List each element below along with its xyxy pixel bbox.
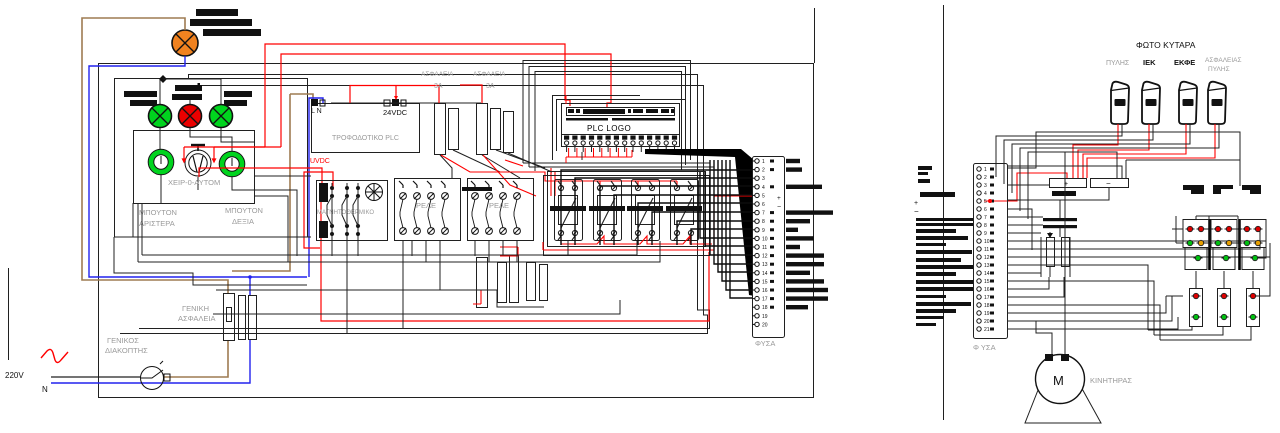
svg-text:6: 6: [762, 202, 765, 208]
svg-text:2: 2: [984, 175, 987, 181]
indicator lamp red centre: [179, 105, 202, 128]
svg-text:20: 20: [984, 319, 990, 325]
thick bar under plus block: [1052, 191, 1076, 196]
wires PLC terminals down: [567, 145, 675, 152]
svg-text:ΓΕΝΙΚΟΣ: ΓΕΝΙΚΟΣ: [107, 336, 139, 345]
wire from minus block down: [1007, 188, 1109, 200]
wire lamp header: [160, 79, 221, 104]
indicator lamp orange: [172, 30, 198, 56]
breaker block Q2 thick band: [589, 206, 625, 211]
svg-text:10: 10: [762, 236, 768, 242]
svg-text:5: 5: [984, 199, 987, 205]
red pin at row5: [988, 199, 992, 203]
relay box K1: [395, 179, 461, 241]
enclosure inner box B1: [139, 75, 710, 329]
node junction diamond: [159, 75, 167, 83]
wire blue neutral: [51, 56, 323, 383]
svg-text:18: 18: [984, 303, 990, 309]
wire loops around PLC: [523, 61, 691, 172]
PLC LOGO module box: [562, 104, 680, 147]
terminal strip FYSA right: [974, 164, 1008, 339]
fuse F2a: [477, 104, 488, 155]
svg-text:+: +: [777, 195, 781, 202]
breaker block Q1: [555, 180, 583, 241]
breaker block Q3 thick band: [627, 206, 663, 211]
svg-text:2: 2: [762, 168, 765, 174]
motor terminals: [1045, 354, 1069, 361]
svg-text:L N: L N: [311, 108, 322, 115]
page border fragment left: [8, 268, 10, 360]
fuse F2c: [504, 112, 514, 153]
svg-text:ΡΕΛΕ: ΡΕΛΕ: [489, 201, 509, 210]
redacted bars above LED relays: [1183, 185, 1261, 194]
svg-text:15: 15: [984, 279, 990, 285]
svg-text:8: 8: [984, 223, 987, 229]
wire red to strip plus row: [714, 196, 752, 244]
svg-text:ΕΚΦΕ: ΕΚΦΕ: [1174, 58, 1195, 67]
wire red fan fuse to breakers: [441, 155, 677, 196]
wire mesh right diagram: [1007, 152, 1270, 354]
svg-text:ΓΕΝΙΚΗ: ΓΕΝΙΚΗ: [182, 304, 209, 313]
enclosure inner box B2: [120, 86, 708, 334]
svg-text:9: 9: [984, 231, 987, 237]
LED relay column C: [1240, 220, 1266, 327]
svg-text:3Α: 3Α: [434, 83, 443, 90]
svg-text:−: −: [914, 207, 919, 216]
svg-text:3: 3: [984, 183, 987, 189]
svg-text:Φ ΥΣΑ: Φ ΥΣΑ: [973, 343, 996, 352]
svg-text:ΙΕΚ: ΙΕΚ: [1143, 58, 1156, 67]
svg-text:XEIP-0-AYTOM: XEIP-0-AYTOM: [168, 178, 220, 187]
fuse F2b: [491, 109, 501, 150]
svg-text:ΔΙΑΚΟΠΤΗΣ: ΔΙΑΚΟΠΤΗΣ: [105, 346, 148, 355]
svg-text:24VDC: 24VDC: [383, 108, 408, 117]
svg-text:19: 19: [984, 311, 990, 317]
svg-text:13: 13: [762, 262, 768, 268]
terminal strip FYSA left: [753, 157, 785, 338]
svg-text:16: 16: [984, 287, 990, 293]
svg-text:21: 21: [984, 327, 990, 333]
svg-text:ΜΑΓΝΗΤΟΘΕΡΜΙΚΟ: ΜΑΓΝΗΤΟΘΕΡΜΙΚΟ: [317, 210, 374, 216]
wire bundle wedge: [645, 149, 754, 296]
svg-text:ΑΣΦΑΛΕΙΑΣ: ΑΣΦΑΛΕΙΑΣ: [1205, 57, 1242, 64]
svg-text:ΡΕΛΕ: ΡΕΛΕ: [416, 201, 436, 210]
svg-text:13: 13: [984, 263, 990, 269]
bus bars pair: [1043, 218, 1077, 228]
divider line right diagram: [943, 5, 945, 420]
svg-text:ΑΡΙΣΤΕΡΑ: ΑΡΙΣΤΕΡΑ: [139, 219, 175, 228]
fuse F1b: [449, 109, 459, 150]
breaker pole wires: [327, 183, 360, 262]
PLC top terminal strip: [567, 108, 675, 116]
wire red 24vdc feed: [350, 86, 439, 104]
junction block minus: [1091, 179, 1129, 188]
indicator lamp green left: [149, 105, 172, 128]
photocell wires red: [984, 124, 1215, 201]
svg-text:17: 17: [984, 295, 990, 301]
svg-text:UVDC: UVDC: [310, 158, 330, 165]
wire lamps to buttons cascade: [160, 128, 311, 262]
wire red fuse2: [460, 85, 482, 103]
svg-text:19: 19: [762, 314, 768, 320]
wire red at lower fuse row: [473, 290, 481, 304]
PLC power supply box TROFODOTIKO PLC: [312, 104, 420, 153]
wire brown L-phase: lamp to main fuse to switch: [82, 18, 313, 377]
arrow marker at fuse: [1047, 233, 1053, 238]
breaker dial: [366, 184, 383, 201]
svg-text:10: 10: [984, 239, 990, 245]
wire red control bus A: [184, 44, 611, 147]
breaker block Q2: [594, 180, 622, 241]
photocell gate: [1111, 82, 1129, 124]
magnetothermal breaker box: [317, 181, 388, 241]
svg-text:ΦΩΤΟ ΚΥΤΑΡΑ: ΦΩΤΟ ΚΥΤΑΡΑ: [1136, 40, 1196, 50]
svg-text:14: 14: [984, 271, 990, 277]
breaker block Q4: [671, 180, 699, 241]
enclosure outer box: [99, 8, 815, 398]
thick wire segment left of relay2: [462, 187, 492, 191]
svg-text:11: 11: [984, 247, 989, 253]
breaker block Q3: [632, 180, 660, 241]
svg-text:ΚΙΝΗΤΗΡΑΣ: ΚΙΝΗΤΗΡΑΣ: [1090, 376, 1132, 385]
svg-text:ΔΕΞΙΑ: ΔΕΞΙΑ: [232, 217, 254, 226]
breaker block Q1 thick band: [550, 206, 586, 211]
photocell gate-safety: [1208, 82, 1226, 124]
svg-text:PLC LOGO: PLC LOGO: [587, 124, 631, 133]
svg-text:3: 3: [762, 176, 765, 182]
red verticals to PLC top: [565, 95, 567, 104]
PLC bottom terminal strip: [562, 135, 680, 147]
main fuse block GENIKH ASFALEIA: [224, 294, 257, 341]
redacted label bars right of lamps: [224, 91, 252, 106]
svg-text:8: 8: [762, 219, 765, 225]
svg-text:−: −: [1106, 179, 1111, 188]
svg-text:ΑΣΦΑΛΕΙΑ: ΑΣΦΑΛΕΙΑ: [473, 71, 506, 78]
fuse pair right diagram: [1041, 232, 1070, 277]
svg-text:ΤΡΟΦΟΔΟΤΙΚΟ PLC: ΤΡΟΦΟΔΟΤΙΚΟ PLC: [332, 135, 399, 142]
breaker mechanism blocks: [319, 183, 328, 238]
svg-text:1: 1: [984, 167, 987, 173]
svg-text:ΠΥΛΗΣ: ΠΥΛΗΣ: [1106, 60, 1130, 67]
svg-text:20: 20: [762, 322, 768, 328]
svg-text:N: N: [42, 385, 48, 394]
motor M: [1036, 355, 1085, 404]
svg-text:14: 14: [762, 271, 768, 277]
wire long horizontal runs: [114, 152, 660, 333]
svg-text:4: 4: [984, 191, 987, 197]
red bus under PLC terminals: [566, 148, 632, 163]
photocell IEK: [1142, 82, 1160, 124]
svg-text:4: 4: [762, 185, 765, 191]
push button green left: [148, 149, 174, 175]
svg-text:12: 12: [984, 255, 990, 261]
svg-text:ΑΣΦΑΛΕΙΑ: ΑΣΦΑΛΕΙΑ: [421, 71, 454, 78]
svg-text:5: 5: [762, 193, 765, 199]
fuse row lower F3..F7: [477, 256, 548, 308]
svg-text:18: 18: [762, 305, 768, 311]
svg-text:+: +: [914, 200, 918, 207]
svg-text:12: 12: [762, 254, 768, 260]
redacted bars right diagram: [916, 166, 974, 326]
svg-text:7: 7: [984, 215, 987, 221]
main switch GENIKOS DIAKOPTHS: [141, 361, 171, 390]
svg-text:11: 11: [762, 245, 767, 251]
svg-text:ΜΠΟΥΤΟΝ: ΜΠΟΥΤΟΝ: [139, 208, 177, 217]
indicator lamp green right: [210, 105, 233, 128]
wire mains L: [51, 376, 141, 378]
redacted label bars above red lamp: [172, 83, 202, 100]
svg-text:9: 9: [762, 228, 765, 234]
AC sine symbol red: [41, 349, 68, 362]
motor stand triangle: [1025, 385, 1101, 423]
selector red feed wires: [183, 147, 216, 162]
photocell wires black risers: [996, 124, 1240, 219]
wire red to magnetothermal: [199, 168, 709, 321]
push button green right: [219, 151, 245, 177]
fuse F1a: [435, 104, 446, 155]
LED relay column A: [1183, 220, 1209, 327]
nested loops above breaker blocks: [523, 163, 714, 256]
svg-text:7: 7: [762, 211, 765, 217]
PSU terminals 24VDC: [384, 99, 406, 106]
LED relay column B: [1211, 220, 1237, 327]
junction block plus: [1050, 179, 1087, 188]
wire N to fuse tops: [331, 102, 481, 104]
svg-text:ΜΠΟΥΤΟΝ: ΜΠΟΥΤΟΝ: [225, 206, 263, 215]
svg-text:−: −: [777, 204, 781, 211]
svg-text:M: M: [1053, 373, 1064, 388]
lamp panel box: [115, 79, 308, 238]
svg-text:6: 6: [984, 207, 987, 213]
svg-text:15: 15: [762, 279, 768, 285]
wire stair runs to terminal strip: [561, 160, 752, 298]
redacted label bars left of lamps: [124, 91, 157, 106]
selector switch XEIP-0-AYTOM: [185, 145, 211, 176]
relay box K2: [468, 179, 534, 241]
svg-text:1: 1: [762, 159, 765, 165]
buttons inner box: [134, 131, 255, 204]
svg-text:3Α: 3Α: [486, 83, 495, 90]
svg-text:17: 17: [762, 297, 768, 303]
wire fan fuse bottoms to relays: [440, 150, 552, 178]
svg-text:16: 16: [762, 288, 768, 294]
svg-text:ΠΥΛΗΣ: ΠΥΛΗΣ: [1208, 66, 1230, 73]
wire red zigzag under breaker blocks: [500, 236, 714, 256]
redacted label bars top: [190, 9, 261, 36]
PSU terminals L N: [311, 99, 325, 106]
svg-text:ΑΣΦΑΛΕΙΑ: ΑΣΦΑΛΕΙΑ: [178, 314, 216, 323]
thick vertical feeds: [1210, 219, 1240, 270]
photocell EKFE: [1179, 82, 1197, 124]
svg-text:ΦΥΣΑ: ΦΥΣΑ: [755, 339, 775, 348]
PLC mid bars: [566, 118, 675, 121]
svg-text:220V: 220V: [5, 371, 24, 380]
breaker block Q4 thick band: [666, 206, 702, 211]
